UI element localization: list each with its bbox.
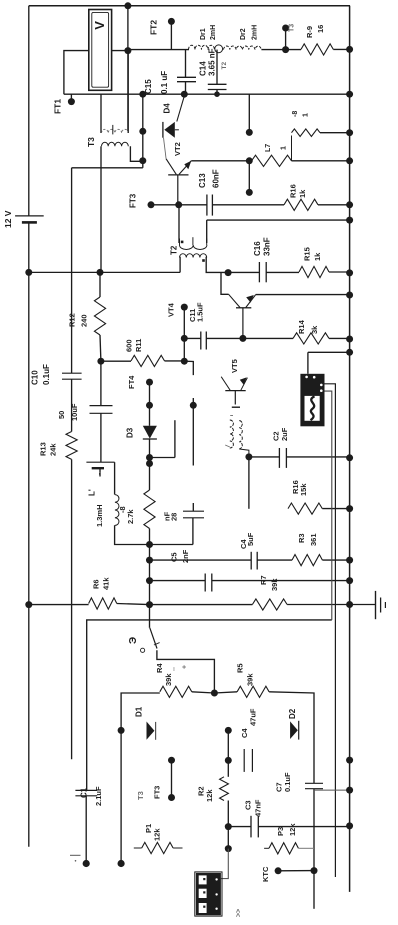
transformer T3 right lead w1	[127, 51, 129, 133]
wire R-9 to rail	[333, 48, 349, 50]
label D2	[288, 708, 297, 719]
svg-text:FT4: FT4	[127, 375, 136, 389]
svg-text:2uF: 2uF	[280, 427, 289, 441]
resistor R5	[237, 686, 269, 697]
svg-text:R13: R13	[39, 442, 48, 456]
node dot switch/R4R5	[211, 690, 218, 697]
wire R3 to rail	[322, 559, 349, 561]
label C5 2nF	[170, 549, 191, 563]
wire R17 to rail	[322, 508, 349, 510]
svg-text:3.65 nF: 3.65 nF	[207, 48, 216, 76]
node dot rail y790	[346, 787, 353, 794]
label T1 faint	[136, 791, 145, 800]
label R14 3k	[297, 319, 319, 334]
capacitor C2	[279, 448, 286, 468]
wire C4 to R3	[257, 559, 292, 561]
wire R11 left	[101, 360, 131, 362]
svg-text:Dr2: Dr2	[240, 28, 247, 40]
resistor R11	[131, 355, 165, 366]
wire R14 to rail	[329, 337, 350, 339]
wire voltmeter left lead	[64, 51, 89, 95]
transistor VT2	[166, 159, 191, 205]
label R7 39k	[259, 575, 279, 591]
wire top supply rail (portrait y=5.8)	[29, 5, 350, 7]
node dot x149 y405	[146, 402, 153, 409]
label C4b 47uF	[240, 708, 257, 738]
transformer T2 winding a	[180, 237, 207, 249]
wire x249 from bus	[248, 94, 250, 132]
capacitor C4	[251, 552, 257, 570]
capacitor C13	[207, 195, 213, 216]
svg-text:C14: C14	[199, 61, 208, 76]
label Dr1 2mH	[200, 25, 217, 40]
label 28nF	[163, 511, 179, 521]
svg-text:..: ..	[170, 667, 177, 671]
node dot rail y352	[346, 349, 353, 356]
svg-text:D2: D2	[288, 708, 297, 719]
resistor R15	[299, 266, 329, 277]
label T3	[86, 137, 96, 147]
node junction dot top wire x=128	[124, 2, 131, 9]
svg-text:D3: D3	[125, 427, 134, 438]
wire BA1 return long	[87, 620, 332, 791]
capacitor C5	[205, 574, 212, 592]
node dot rail y760	[346, 757, 353, 764]
label R5 39k	[236, 663, 255, 686]
node dot x121 y730	[118, 727, 125, 734]
wire x193 lower part	[192, 398, 194, 405]
svg-text:1k: 1k	[313, 252, 322, 261]
capacitor C16	[228, 262, 299, 282]
switch pivot mark	[141, 648, 145, 652]
wire C8 to L	[114, 462, 116, 494]
label C15 0.1uF	[144, 71, 169, 94]
label C2 2uF	[272, 427, 290, 441]
svg-text:T3: T3	[86, 137, 96, 147]
svg-text:50: 50	[57, 411, 66, 419]
wire y560 left	[150, 559, 252, 561]
svg-text:240: 240	[80, 314, 89, 327]
wire VT2 emitter to x249	[191, 160, 249, 162]
label R12 240	[68, 313, 89, 327]
wire right main rail	[349, 6, 351, 892]
wire y220 to rail	[207, 219, 350, 221]
wire ground rail left piece	[29, 271, 180, 273]
svg-text:5uF: 5uF	[246, 532, 255, 546]
label R-8 1	[292, 111, 310, 117]
label R-9 16	[305, 25, 325, 38]
svg-text:T2: T2	[169, 245, 178, 255]
svg-text:R5: R5	[236, 663, 245, 673]
wire T1 left hook	[225, 445, 230, 447]
node KT6 terminal stub	[282, 25, 289, 54]
svg-text:39k: 39k	[246, 673, 255, 686]
wire y580 left	[150, 580, 206, 582]
label R3b 12k	[276, 823, 297, 836]
wire rail to BA1	[308, 352, 350, 374]
wire x=128 drop	[127, 6, 129, 131]
node terminal dot C1	[70, 855, 90, 867]
node dot x142 y160	[139, 157, 146, 164]
node dot rail y457	[346, 454, 353, 461]
label C14 3.65nF	[199, 48, 228, 76]
label KT1	[53, 99, 63, 114]
svg-text:28: 28	[170, 513, 179, 521]
svg-text:C5: C5	[170, 552, 179, 562]
node KT5 terminal	[146, 379, 153, 386]
label VT2	[173, 142, 182, 156]
svg-text:C10: C10	[30, 370, 39, 385]
wire R7 to rail	[287, 604, 350, 606]
svg-text:R11: R11	[134, 339, 143, 352]
svg-text:2mH: 2mH	[210, 25, 217, 40]
svg-text:VT5: VT5	[230, 359, 239, 373]
wire R11 right	[165, 360, 185, 362]
wire C13 to R16	[212, 204, 284, 206]
node dot x184 y338	[181, 335, 188, 342]
diode D2	[290, 721, 299, 740]
node junction dot voltmeter/choke	[124, 47, 131, 54]
svg-text:3k: 3k	[310, 325, 319, 334]
wire T2a right lead upper	[206, 220, 208, 243]
transistor VT5	[221, 377, 247, 405]
node dot T3 return	[97, 269, 104, 276]
node dot x149 y544	[146, 541, 153, 548]
node dot x184 y361	[181, 358, 188, 365]
label C11 1.5uF	[188, 302, 205, 322]
wire T1 right lead	[239, 449, 249, 457]
svg-text:1k: 1k	[298, 189, 307, 198]
resistor R-9	[301, 44, 333, 55]
label R6 41k	[92, 577, 111, 590]
svg-text:R4: R4	[155, 663, 164, 673]
resistor R7	[252, 599, 287, 610]
label C9 values	[57, 403, 79, 421]
label 12V	[3, 210, 13, 228]
svg-text:47nF: 47nF	[254, 799, 263, 817]
node dot rail y508	[346, 505, 353, 512]
svg-text:R3: R3	[297, 533, 306, 543]
svg-text:R16: R16	[289, 184, 298, 198]
svg-text:C13: C13	[198, 173, 207, 188]
svg-text:2mH: 2mH	[252, 25, 259, 40]
wire bus y=94.2	[64, 93, 350, 95]
resistor R17	[288, 503, 322, 514]
transformer T3 winding 2	[102, 142, 129, 146]
capacitor C4b 47uF plates	[244, 749, 252, 772]
transformer T2 polarity marks	[181, 241, 205, 262]
connector XP1 body	[195, 872, 222, 916]
wire R-8 to rail	[320, 132, 350, 134]
resistor R2	[220, 777, 229, 827]
node dot rail y272	[346, 269, 353, 276]
node dot rail y132	[346, 129, 353, 136]
wire switch out	[157, 650, 215, 693]
wire C2 left	[249, 456, 280, 458]
svg-text:V: V	[92, 21, 107, 30]
capacitor C3	[228, 816, 349, 838]
label KT5	[127, 375, 136, 389]
node dot D3 cathode b	[146, 460, 153, 467]
capacitor C14	[208, 50, 227, 95]
svg-text:361: 361	[309, 533, 318, 546]
label KT3	[128, 193, 137, 208]
label VT5	[230, 359, 239, 373]
node dot x149 y560	[146, 557, 153, 564]
svg-text:Dr1: Dr1	[200, 28, 207, 40]
node dot x193 y405	[190, 402, 197, 409]
svg-text:16: 16	[316, 25, 325, 33]
svg-text:12k: 12k	[205, 789, 214, 802]
resistor R4	[160, 686, 192, 697]
wire x228 c	[227, 827, 229, 849]
capacitor C8 polarized	[86, 462, 114, 476]
label KT4	[167, 302, 176, 317]
wire R15 to rail	[329, 271, 350, 273]
node dot rail y94	[346, 91, 353, 98]
svg-text:47uF: 47uF	[248, 708, 257, 726]
node KT2 terminal stub	[168, 18, 175, 50]
transformer T3 winding 1	[102, 125, 129, 134]
node dot D3 cathode a	[146, 454, 153, 461]
label C16 33nF	[253, 237, 272, 256]
wire to connector	[221, 849, 228, 879]
resistor R3b	[264, 843, 314, 854]
label KT7	[153, 786, 162, 799]
node dot x249 y160	[246, 157, 253, 164]
capacitor C10	[62, 373, 82, 431]
label KT6	[289, 24, 296, 32]
wire KT5 to D3	[149, 405, 151, 426]
wire D3 node side link	[150, 420, 175, 457]
svg-text:12k: 12k	[153, 828, 162, 841]
transistor VT3	[229, 294, 256, 338]
wire x142.8 drop	[142, 94, 144, 168]
svg-text:D4: D4	[162, 103, 171, 114]
wire C5 right	[212, 580, 350, 582]
svg-text:41k: 41k	[102, 577, 111, 590]
wire T2a left lead	[178, 205, 180, 243]
node dot x142 y131	[139, 128, 146, 135]
wire BA1 lead a	[325, 384, 336, 877]
node KTC terminal	[275, 867, 314, 874]
wire T1 to R17	[248, 457, 250, 509]
label XP1 marks	[236, 909, 243, 917]
resistor R3	[292, 555, 322, 566]
node dot rail y560	[346, 557, 353, 564]
wire x193 to C28n	[192, 405, 194, 511]
resistor R13	[66, 432, 77, 460]
node KT1 test point stub	[68, 94, 75, 105]
svg-text:Э: Э	[128, 637, 139, 644]
svg-text:KTC: KTC	[261, 866, 270, 882]
wire choke to R-9	[261, 49, 301, 51]
wire L to node	[115, 525, 149, 544]
capacitor C6 0.1uF	[305, 783, 323, 870]
svg-text:15k: 15k	[299, 483, 308, 496]
svg-text:R14: R14	[297, 319, 306, 334]
wire x121 drop	[120, 730, 122, 863]
label T2	[169, 245, 178, 255]
voltmeter PV1 body	[89, 10, 112, 91]
node dot rail y160	[346, 157, 353, 164]
svg-text:0.1uF: 0.1uF	[283, 772, 292, 792]
label R15 1k	[303, 247, 323, 261]
svg-text:FT3: FT3	[128, 193, 137, 208]
wire R6 right	[117, 604, 150, 605]
ground	[350, 591, 386, 619]
svg-text:0.1uF: 0.1uF	[42, 364, 51, 385]
wire VT3 collector	[221, 272, 229, 294]
svg-text:1.3mH: 1.3mH	[95, 504, 104, 527]
wire R5 left	[214, 692, 237, 693]
svg-text:12k: 12k	[288, 823, 297, 836]
node dot battery feed R6	[25, 601, 32, 608]
node dot battery- rail	[25, 269, 32, 276]
node dot x149 y580	[146, 577, 153, 584]
label D1	[134, 706, 143, 717]
wire x314 tail	[313, 871, 315, 909]
label R4 39k	[155, 663, 173, 686]
battery GB1 12V	[15, 216, 44, 223]
node dot rail y338	[346, 336, 353, 343]
transformer T1 core bar	[230, 407, 240, 415]
node KT4 stub dot	[181, 304, 188, 311]
label C6 0.1uF	[275, 772, 293, 792]
label C3 47nF	[244, 799, 263, 817]
svg-text:T2: T2	[221, 62, 228, 70]
wire BA1 lead b	[325, 391, 332, 620]
node dot C14 on bus	[214, 91, 220, 97]
label KT2	[149, 20, 159, 35]
svg-text:T3: T3	[136, 791, 145, 800]
capacitor C1	[75, 790, 97, 863]
inductor Dr1 winding	[189, 45, 215, 49]
svg-text:2nF: 2nF	[181, 549, 190, 563]
wire elbow to x193	[184, 361, 193, 375]
svg-text:D1: D1	[134, 706, 143, 717]
svg-text:C3: C3	[244, 800, 253, 810]
wire x249 y160-192	[248, 161, 250, 193]
node dot rail y294	[346, 292, 353, 299]
svg-text:C4: C4	[240, 728, 249, 738]
node KT3 terminal	[148, 201, 155, 208]
svg-text:T3: T3	[289, 24, 296, 32]
wire R-7 to rail	[292, 160, 350, 162]
svg-text:VT2: VT2	[173, 142, 182, 156]
node dot x314 y870	[311, 867, 318, 874]
diode D1	[147, 722, 156, 740]
label KTC	[261, 866, 270, 882]
svg-text:>>: >>	[236, 909, 243, 917]
svg-text:C16: C16	[253, 241, 262, 256]
svg-text:L7: L7	[265, 144, 272, 152]
svg-text:2.1uF: 2.1uF	[94, 786, 103, 806]
wire D4 to VT2 collector	[164, 138, 167, 159]
svg-text:VT4: VT4	[167, 302, 176, 317]
transformer T1 winding right	[239, 421, 242, 449]
label D4	[162, 103, 171, 114]
wire left border / battery feed	[28, 6, 30, 847]
label R-7 1	[265, 144, 288, 152]
resistor R16	[284, 199, 318, 210]
node dot rail y220	[346, 217, 353, 224]
node dot VT3 base junction	[239, 335, 246, 342]
node terminal dot x121 bottom	[118, 860, 125, 867]
wire T2b right lead	[206, 257, 228, 273]
inductor L1	[115, 495, 119, 526]
label R3 361	[297, 533, 318, 546]
label L 1.3mH	[87, 489, 104, 527]
svg-text:FT2: FT2	[149, 20, 159, 35]
wire C11 junction to R14	[243, 337, 293, 339]
capacitor C15	[177, 50, 196, 95]
node dot x228 y826	[225, 823, 232, 830]
label R13 24k	[39, 442, 58, 456]
wire T2b left lead	[179, 257, 181, 273]
svg-text:39k: 39k	[270, 578, 279, 591]
node dot x249 y132	[246, 129, 253, 136]
label C1 2.1uF	[79, 786, 103, 806]
svg-text:R-9: R-9	[305, 26, 314, 38]
capacitor C12 28nF	[150, 511, 204, 544]
label R2 12k	[197, 786, 215, 802]
node dot x100 y361	[97, 358, 104, 365]
svg-text:24k: 24k	[49, 443, 58, 456]
node dot VT2 base junction	[175, 201, 182, 208]
wire R5 right corner	[269, 692, 314, 784]
indicator BA1 body	[300, 374, 324, 427]
svg-text:33nF: 33nF	[262, 237, 271, 256]
label D3	[125, 427, 134, 438]
svg-text:R12: R12	[68, 313, 77, 327]
label switch marks	[170, 665, 189, 671]
wire D3 to R8	[149, 464, 151, 491]
wire x228 a	[227, 730, 229, 776]
capacitor C11	[184, 332, 243, 350]
svg-text:R6: R6	[92, 579, 101, 589]
label R17 15	[291, 480, 308, 496]
node dot bus x142.8	[139, 91, 146, 98]
resistor R1	[134, 842, 183, 853]
transformer T3 left leads	[100, 94, 102, 272]
transformer T3 right lead w2	[130, 146, 142, 161]
label R8 2.7k	[118, 506, 135, 524]
label C4 5uF	[239, 532, 255, 549]
node dot bus x184.3	[181, 91, 188, 98]
wire x71.6 long drop	[71, 168, 73, 373]
resistor R8	[144, 490, 155, 529]
wire choke feed	[128, 49, 189, 51]
node dot x228 y730	[225, 727, 232, 734]
label C13 60nF	[198, 169, 221, 188]
label C8 minus	[97, 472, 104, 475]
svg-text:39k: 39k	[164, 673, 173, 686]
inductor Dr2 winding	[215, 45, 262, 53]
node dot T1/C2	[245, 453, 252, 460]
svg-text:L': L'	[87, 489, 96, 496]
svg-text:-8: -8	[292, 111, 299, 117]
label C10 0.1uF	[30, 364, 51, 385]
node dot rail y826	[346, 822, 353, 829]
wire KT3 to C13	[151, 204, 207, 206]
capacitor C9	[90, 361, 113, 462]
wire R8 to switch node	[149, 529, 151, 605]
node dot x149 y604	[146, 601, 153, 608]
node dot x249 y192	[246, 189, 253, 196]
resistor R-7	[252, 155, 292, 166]
wire y167.8 link	[72, 167, 143, 169]
